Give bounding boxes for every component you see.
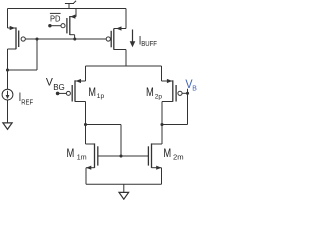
- transistor M1m: [86, 143, 98, 169]
- label M2m: [163, 147, 183, 162]
- svg-text:1p: 1p: [97, 93, 105, 100]
- wire M1m source down to ground rail: [85, 168, 87, 185]
- wire M2p source up to mid rail: [161, 66, 163, 81]
- node junction at M0 drain / IREF: [6, 68, 9, 71]
- wire mirror gate rail: [25, 38, 106, 40]
- label M1m: [67, 147, 87, 162]
- svg-text:M: M: [146, 86, 154, 99]
- wire node B to VB vertical: [162, 124, 188, 126]
- wire MB drain down to mid rail: [125, 50, 127, 67]
- wire gate drop vertical: [120, 125, 122, 157]
- svg-text:REF: REF: [21, 99, 33, 106]
- label M2p: [146, 86, 162, 100]
- svg-text:B: B: [192, 85, 197, 92]
- svg-text:BUFF: BUFF: [141, 41, 157, 48]
- svg-text:M: M: [88, 86, 96, 99]
- label IBUFF: [139, 34, 157, 48]
- label PD (active-low) with overline: [50, 13, 61, 23]
- wire node A to NMOS gates: [86, 124, 122, 126]
- svg-text:PD: PD: [50, 13, 61, 23]
- wire M0 drain down to node: [7, 49, 9, 70]
- wire VB stub up: [187, 89, 189, 94]
- label IREF: [19, 91, 33, 106]
- node A junction: [84, 123, 87, 126]
- node junction MPD drain / gate rail: [73, 37, 76, 40]
- wire mid source rail: [86, 65, 162, 67]
- transistor M2p: [162, 79, 188, 102]
- label VB output (blue): [185, 77, 197, 92]
- label VBG input: [46, 76, 65, 92]
- svg-text:2p: 2p: [155, 93, 163, 100]
- ground arrow below IREF: [3, 123, 12, 129]
- wire VB down to node B wire: [187, 93, 189, 124]
- wire M2m source down to ground rail: [161, 168, 163, 185]
- transistor M1p: [66, 79, 85, 102]
- node junction M2p gate / VB: [186, 92, 189, 95]
- current arrow IBUFF: [130, 30, 136, 48]
- node junction NMOS gate rail: [119, 154, 122, 157]
- wire M1p source up to mid rail: [85, 66, 87, 81]
- wire node B down to M2m drain: [161, 125, 163, 145]
- wire ground rail: [86, 183, 162, 185]
- wire M2p drain down to node B: [161, 102, 163, 125]
- wire diode loop bottom: [8, 69, 38, 71]
- svg-text:BG: BG: [53, 83, 65, 92]
- transistor M0 (diode-connected PMOS mirror master): [8, 26, 26, 49]
- wire PD to MPD gate: [50, 25, 61, 27]
- wire VDD top rail: [8, 8, 127, 10]
- transistor MPD (power-down PMOS switch): [61, 9, 76, 36]
- wire diode loop vertical: [36, 39, 38, 70]
- svg-text:2m: 2m: [173, 155, 184, 162]
- wire M1p drain down to node A: [85, 102, 87, 125]
- node junction gate rail / diode loop: [35, 37, 38, 40]
- svg-text:M: M: [67, 147, 75, 160]
- wire left rail from top rail down to M0 source: [7, 9, 9, 29]
- svg-text:M: M: [163, 147, 171, 160]
- supply symbol VDD: [65, 1, 76, 9]
- wire MB source up to VDD rail: [125, 9, 127, 29]
- transistor M2m: [148, 143, 162, 169]
- node B junction: [160, 123, 163, 126]
- wire VBG to M1p gate: [58, 92, 67, 94]
- wire NMOS gate rail: [98, 155, 149, 157]
- wire MPD drain to gate rail: [74, 35, 76, 39]
- label M1p: [88, 86, 104, 100]
- wire node A down to M1m drain: [85, 125, 87, 145]
- ground symbol: [119, 184, 129, 199]
- svg-text:1m: 1m: [77, 155, 87, 162]
- transistor MB (buffer bias PMOS): [106, 26, 126, 49]
- current source IREF: [2, 70, 13, 123]
- terminal dot PD input: [48, 24, 51, 27]
- terminal dot VBG: [56, 92, 60, 96]
